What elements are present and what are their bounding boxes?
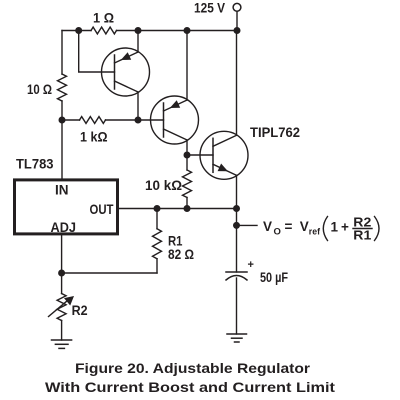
wire 10k lower lead xyxy=(186,198,188,209)
wire branch to formula xyxy=(237,224,258,226)
node: OUT / R1 junction xyxy=(154,205,161,212)
wire node to 1k resistor xyxy=(62,119,80,121)
wire left branch down from rail xyxy=(61,31,63,75)
caption xyxy=(45,360,335,395)
wire Q3 emitter down to output node xyxy=(236,175,238,208)
node: Q2 collector / Q3 base / 10k junction xyxy=(184,152,191,159)
svg-text:1 Ω: 1 Ω xyxy=(93,10,114,26)
node: ADJ / R1 / R2 junction xyxy=(58,270,65,277)
svg-text:1 kΩ: 1 kΩ xyxy=(80,129,108,145)
node: OUT / Q3 emitter junction xyxy=(233,205,240,212)
wire output node down xyxy=(236,209,238,273)
wire ADJ pin down xyxy=(61,234,63,294)
wire top rail right segment xyxy=(117,30,238,32)
node: rail junction at Q2 emitter xyxy=(184,27,191,34)
wire OUT line xyxy=(119,208,237,210)
resistor 10 kohm xyxy=(145,170,192,197)
svg-text:OUT: OUT xyxy=(90,201,114,217)
svg-text:Figure 20. Adjustable Regulato: Figure 20. Adjustable Regulator xyxy=(75,360,311,376)
svg-text:1: 1 xyxy=(331,220,339,235)
ground (left) xyxy=(52,340,72,348)
node: output / formula branch xyxy=(233,222,240,229)
svg-text:V: V xyxy=(263,219,272,234)
svg-text:R2: R2 xyxy=(72,302,88,318)
node: OUT / 10k junction xyxy=(184,205,191,212)
wire capacitor to ground xyxy=(236,278,238,334)
ground (right) xyxy=(227,334,247,342)
125 V supply terminal xyxy=(194,0,241,16)
svg-text:IN: IN xyxy=(55,182,69,198)
transistor Q2 (PNP) xyxy=(151,96,199,144)
resistor 1 ohm xyxy=(91,10,117,34)
wire to Q3 base xyxy=(187,154,213,156)
svg-text:125 V: 125 V xyxy=(194,0,226,16)
transistor Q3 TIPL762 (NPN) xyxy=(200,131,248,179)
svg-text:TL783: TL783 xyxy=(16,156,54,172)
wire 10k upper lead xyxy=(186,155,188,170)
formula VO = Vref(1 + R2/R1) xyxy=(263,216,379,243)
capacitor C1 50 uF xyxy=(226,259,288,285)
svg-text:ref: ref xyxy=(309,227,321,238)
wire Q1 collector down xyxy=(137,92,139,120)
node: rail junction at 125V / Q3 collector xyxy=(234,27,241,34)
svg-text:O: O xyxy=(274,227,281,238)
resistor 10 ohm xyxy=(27,74,67,101)
wire Q2 emitter to rail xyxy=(186,31,188,101)
regulator U1 TL783 xyxy=(15,156,118,236)
node: Q1 collector / Q2 base junction xyxy=(135,117,142,124)
resistor 1 kohm xyxy=(80,117,108,145)
svg-text:+: + xyxy=(341,220,349,235)
svg-text:10 kΩ: 10 kΩ xyxy=(145,177,182,193)
svg-text:+: + xyxy=(248,259,254,271)
wire Q1 emitter to rail xyxy=(137,31,139,53)
svg-text:10 Ω: 10 Ω xyxy=(27,81,52,97)
wire from 125V terminal to rail xyxy=(236,11,238,30)
node: 10ohm / 1k junction xyxy=(59,117,66,124)
wire 1k to Q1 collector node xyxy=(106,119,139,121)
potentiometer R2 xyxy=(49,294,88,321)
svg-text:V: V xyxy=(300,219,309,234)
wire R1 bottom to ADJ line xyxy=(62,272,157,274)
wire Q3 collector to rail xyxy=(236,31,238,136)
svg-text:ADJ: ADJ xyxy=(51,219,77,235)
svg-text:50 µF: 50 µF xyxy=(260,269,288,285)
wire 10 ohm to TL783 IN xyxy=(61,101,63,179)
svg-text:=: = xyxy=(285,219,293,234)
svg-text:TIPL762: TIPL762 xyxy=(250,124,300,140)
node: rail junction at Q1 emitter xyxy=(135,27,142,34)
wire Q2 collector down xyxy=(186,140,188,155)
svg-text:R1: R1 xyxy=(353,229,371,243)
node: rail junction at Q1 base branch xyxy=(75,27,82,34)
wire to Q2 base xyxy=(138,119,164,121)
svg-text:With Current Boost and Current: With Current Boost and Current Limit xyxy=(45,379,335,395)
svg-text:82 Ω: 82 Ω xyxy=(168,246,194,262)
svg-text:R2: R2 xyxy=(353,216,371,230)
transistor Q1 (PNP) xyxy=(102,48,150,96)
resistor R1 82 ohm xyxy=(153,209,195,274)
wire top rail left segment xyxy=(62,30,91,32)
wire rail branch to Q1 base xyxy=(79,31,115,73)
wire R2 to ground xyxy=(61,321,63,341)
